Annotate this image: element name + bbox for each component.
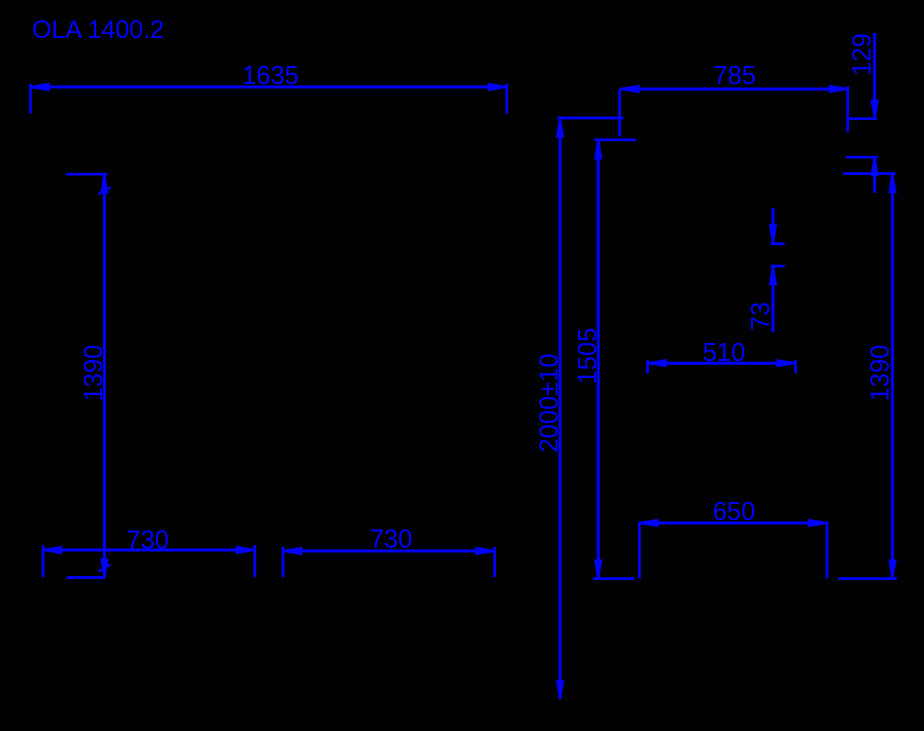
dimension 1390 right: line [891,174,894,578]
dimension 1390 left: bottom extension [67,576,105,579]
svg-text:1505: 1505 [574,328,602,385]
dimension 129: upper arrow [872,101,878,118]
dimension 129: tick 2 [846,156,878,159]
svg-text:129: 129 [849,33,877,76]
dimension 73: lower arrow [770,267,776,284]
dimension 730 second: right extension [493,547,496,577]
dimension 730 first: line [43,549,255,552]
dimension 129: lower arrow [872,158,878,175]
dimension 1635 right arrow [489,84,506,90]
dimension 1390 left: bottom arrow [102,560,108,577]
dimension 1390 left: top arrow [102,176,108,193]
dimension 730 first: right extension [253,545,256,577]
dimension 1505: top arrow [595,141,601,158]
svg-text:2000±10: 2000±10 [536,353,564,452]
dimension 650: left arrow [640,520,657,526]
dimension 1635 left extension [29,84,32,114]
dimension 1635 line [31,86,507,89]
dimension 650: line [639,522,829,525]
dimension 510: line [648,362,796,365]
dimension 1390 left: top extension [66,173,107,176]
dimension 1505: bottom extension [593,577,634,580]
dimension 2000±10: line [559,119,562,700]
dimension 1390 right: bottom extension [838,577,897,580]
svg-text:1390: 1390 [867,345,895,402]
dimension 730 second: right arrow [477,548,494,554]
svg-text:73: 73 [747,302,775,330]
dimension 129: upper line [873,33,876,118]
dimension 1505: line [597,140,600,578]
dimension 1505: bottom arrow [595,561,601,578]
dimension 785: right arrow [830,86,847,92]
dimension 510: right arrow [778,360,795,366]
dimension 650: right extension [826,522,829,578]
dimension 1635 right extension [505,84,508,114]
svg-text:1635: 1635 [242,62,299,90]
dimension 1390 right: bottom arrow [890,561,896,578]
dimension 730 second: left arrow [284,548,301,554]
dimension 73: tick 2 [771,265,785,268]
dimension 650: right arrow [809,520,826,526]
svg-text:785: 785 [713,62,756,90]
dimension 73: lower line [772,267,775,333]
dimension 129: lower line [873,158,876,193]
dimension 510: right extension [794,360,797,373]
dimension 730 second: line [283,550,495,553]
dimension 785: left extension [618,89,621,136]
dimension 1390 left: bottom slash [99,565,111,572]
dimension 73: tick 1 [771,242,785,245]
svg-text:1390: 1390 [80,345,108,402]
dimension 1390 right: top extension [843,172,896,175]
dimension 650: left extension [638,522,641,578]
dimension 2000±10: top extension [558,117,624,120]
dimension 2000±10: bottom arrow [557,682,563,699]
dimension 730 first: left extension [42,545,45,577]
dimension 510: left arrow [649,360,666,366]
svg-text:650: 650 [713,498,756,526]
dimension 1390 left: top slash [99,188,111,195]
dimension 1635 left arrow [32,84,49,90]
svg-text:510: 510 [703,339,746,367]
svg-text:OLA 1400.2: OLA 1400.2 [32,16,164,44]
dimension 730 first: left arrow [44,547,61,553]
dimension 730 first: right arrow [237,547,254,553]
svg-text:730: 730 [370,526,413,554]
dimension 73: upper arrow [770,225,776,242]
dimension 2000±10: top arrow [557,120,563,137]
dimension 73: upper line [772,208,775,243]
dimension 730 second: left extension [282,547,285,577]
dimension 1505: top extension [594,138,636,141]
svg-text:730: 730 [126,527,169,555]
dimension 510: left extension [646,360,649,373]
dimension 129: tick 1 [848,117,877,120]
dimension 785: left arrow [621,86,638,92]
dimension 785: line [620,88,847,91]
dimension 1390 left: line [103,175,106,578]
dimension 1390 right: top arrow [890,175,896,192]
dimension 785: right extension [846,86,849,132]
